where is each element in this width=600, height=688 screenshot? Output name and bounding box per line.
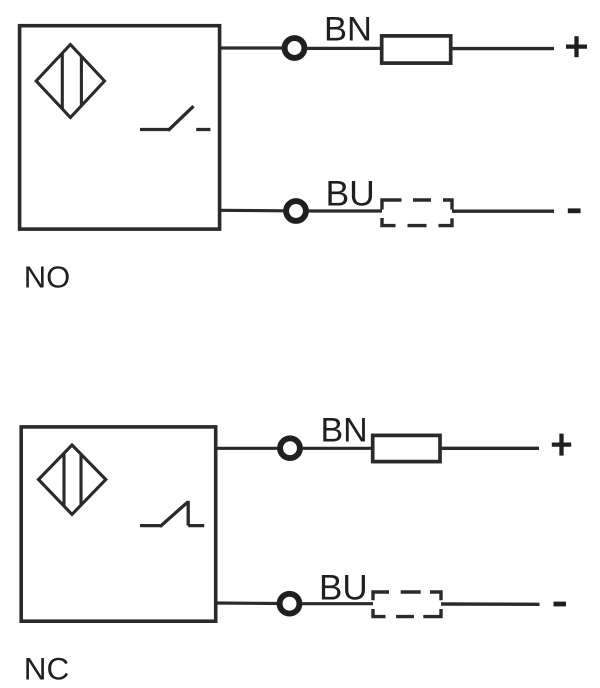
wire terminal to dashed load (NC) — [302, 602, 374, 605]
dashed optional load (NO) — [382, 200, 452, 226]
wire dashed load to minus (NO) — [452, 209, 554, 212]
sensor body box (NO) — [20, 26, 220, 229]
wire dashed load to minus (NC) — [441, 602, 540, 606]
svg-text:BU: BU — [326, 174, 375, 214]
load resistor (NC) — [373, 435, 440, 461]
wire load to plus (NO) — [451, 47, 554, 50]
wire BN box to terminal (NO) — [219, 46, 283, 49]
plus terminal (NO) — [566, 36, 587, 57]
wire terminal to dashed load (NO) — [308, 209, 382, 212]
wire terminal to load (NO) — [307, 47, 383, 50]
wire BN box to terminal (NC) — [216, 447, 279, 450]
NC switch contact — [140, 501, 204, 527]
proximity sensor symbol (NO) — [36, 45, 104, 118]
wire load to plus (NC) — [440, 447, 539, 450]
plus terminal (NC) — [552, 434, 571, 456]
NO switch contact — [140, 106, 210, 130]
svg-text:NC: NC — [24, 650, 70, 686]
wire terminal to load (NC) — [302, 447, 373, 450]
svg-text:NO: NO — [24, 260, 71, 295]
terminal circle BU (NO) — [286, 201, 306, 221]
svg-text:BU: BU — [319, 569, 368, 608]
terminal circle BN (NO) — [285, 38, 305, 58]
load resistor (NO) — [382, 36, 451, 63]
svg-text:BN: BN — [321, 412, 368, 450]
proximity sensor symbol (NC) — [39, 445, 106, 514]
terminal circle BN (NC) — [280, 438, 300, 458]
wire BU box to terminal (NO) — [219, 209, 285, 213]
minus terminal (NC) — [554, 602, 567, 607]
minus terminal (NO) — [568, 208, 581, 213]
svg-text:BN: BN — [324, 11, 372, 49]
sensor body box (NC) — [21, 427, 216, 621]
dashed optional load (NC) — [373, 592, 441, 617]
wire BU box to terminal (NC) — [216, 601, 279, 605]
terminal circle BU (NC) — [280, 594, 300, 614]
